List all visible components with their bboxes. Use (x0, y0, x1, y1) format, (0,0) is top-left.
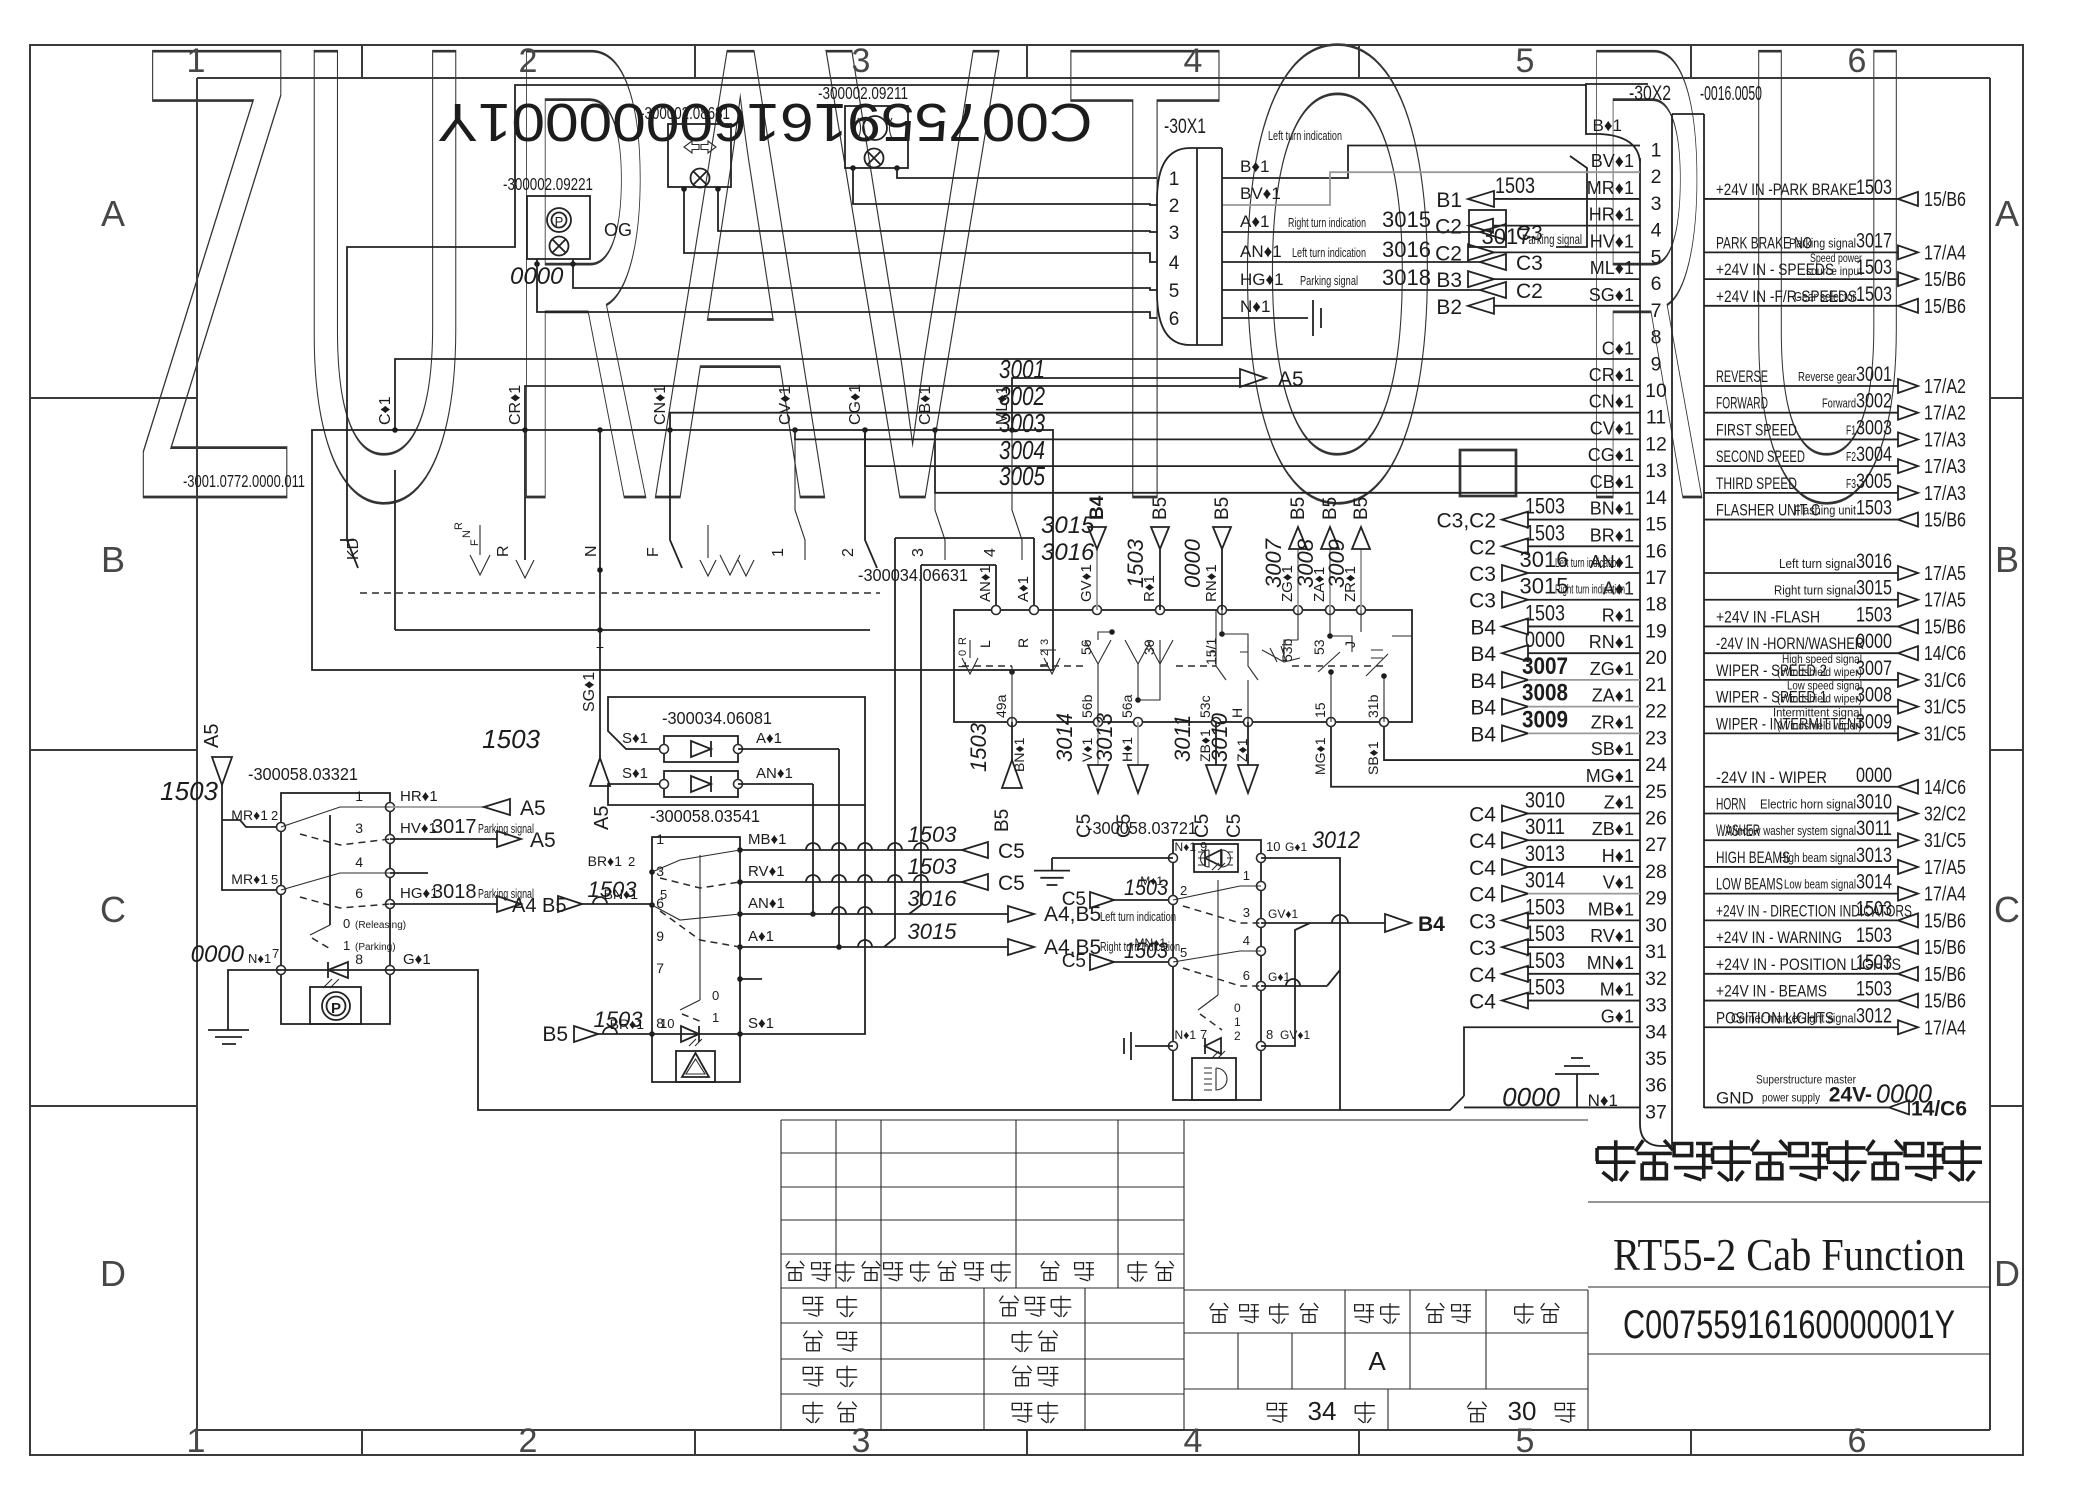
svg-text:0000: 0000 (191, 941, 245, 968)
svg-text:1: 1 (187, 1422, 206, 1460)
svg-text:28: 28 (1645, 861, 1667, 883)
svg-text:G♦1: G♦1 (403, 951, 431, 968)
switch -300058.03721 (light switch) (1087, 818, 1261, 1100)
svg-text:15: 15 (1645, 514, 1667, 536)
svg-text:56a: 56a (1119, 694, 1135, 718)
svg-text:33: 33 (1645, 995, 1667, 1017)
svg-text:27: 27 (1645, 834, 1667, 856)
svg-text:GND: GND (1716, 1088, 1754, 1107)
svg-text:C♦1: C♦1 (377, 396, 394, 425)
svg-text:H♦1: H♦1 (1602, 846, 1634, 866)
svg-text:LOW BEAMS: LOW BEAMS (1716, 875, 1783, 894)
svg-text:4: 4 (982, 548, 999, 557)
switch -300058.03321 (park brake) (248, 764, 390, 1024)
svg-text:34: 34 (1308, 1396, 1337, 1426)
svg-text:3018: 3018 (432, 881, 477, 903)
node C vertical (345, 396, 398, 560)
svg-text:3014: 3014 (1052, 713, 1077, 762)
wire -30X2 pin27 right to 31/C5 (1704, 817, 1966, 852)
wire pin11 CN net 3002 (670, 413, 1640, 430)
svg-text:4: 4 (1169, 253, 1180, 274)
light switch row MN feed (1062, 933, 1266, 972)
svg-text:SB♦1: SB♦1 (1365, 741, 1381, 775)
svg-text:17: 17 (1645, 567, 1667, 589)
svg-text:30: 30 (1508, 1396, 1537, 1426)
svg-text:B: B (1995, 539, 2019, 580)
svg-text:B2: B2 (1436, 296, 1462, 319)
svg-text:F3: F3 (1846, 477, 1856, 491)
hazard feed arrows (558, 877, 652, 912)
svg-text:24: 24 (1645, 754, 1667, 776)
wire -30X2 pin6 left (1436, 269, 1640, 292)
svg-text:1503: 1503 (1856, 603, 1892, 626)
svg-text:CN♦1: CN♦1 (652, 385, 669, 425)
wire B+ supply top run (347, 85, 1586, 430)
svg-text:0: 0 (343, 916, 350, 931)
svg-text:B4: B4 (1470, 723, 1496, 746)
node A5 feed left margin (160, 724, 281, 890)
svg-text:R: R (957, 637, 969, 645)
svg-text:BR♦1: BR♦1 (610, 1016, 645, 1032)
-30X1 pin6 wire N to chassis (1222, 297, 1321, 336)
svg-text:16: 16 (1645, 540, 1667, 562)
svg-text:B3: B3 (1436, 269, 1462, 292)
svg-text:1503: 1503 (1495, 173, 1535, 198)
svg-text:RV♦1: RV♦1 (1590, 926, 1634, 946)
svg-text:F1: F1 (1846, 423, 1856, 437)
svg-text:RV♦1: RV♦1 (748, 863, 785, 880)
svg-text:+24V IN -FLASH: +24V IN -FLASH (1716, 607, 1820, 626)
svg-text:14/C6: 14/C6 (1911, 1097, 1967, 1120)
wire lamp08681 right pin to -30X1 pin3 (718, 189, 1157, 232)
svg-text:13: 13 (1645, 460, 1667, 482)
svg-text:Low speed signal: Low speed signal (1787, 679, 1862, 693)
wire -30X2 pin19 right to 15/B6 (1704, 603, 1966, 638)
svg-text:S♦1: S♦1 (748, 1015, 774, 1032)
svg-text:1: 1 (712, 1010, 719, 1025)
svg-text:30: 30 (1645, 914, 1667, 936)
svg-text:Window washer system signal: Window washer system signal (1726, 824, 1856, 838)
svg-text:1503: 1503 (908, 854, 958, 879)
svg-text:SECOND SPEED: SECOND SPEED (1716, 447, 1805, 466)
wire -30X2 pin19 left (1470, 600, 1640, 639)
svg-text:+24V IN - BEAMS: +24V IN - BEAMS (1716, 982, 1827, 1001)
svg-text:3007: 3007 (1261, 538, 1286, 588)
svg-text:A5: A5 (530, 829, 556, 852)
svg-text:BV♦1: BV♦1 (1240, 184, 1281, 203)
wire G to bottom rail (390, 970, 1464, 1110)
svg-text:C5: C5 (1062, 951, 1086, 972)
svg-text:+24V IN - WARNING: +24V IN - WARNING (1716, 928, 1842, 947)
node SG output with A5 arrow (482, 630, 613, 830)
svg-text:2: 2 (519, 1422, 538, 1460)
svg-text:P: P (555, 214, 564, 229)
svg-text:source input: source input (1806, 264, 1863, 278)
svg-text:1: 1 (656, 831, 664, 847)
title block right: company, title, code (1588, 1140, 1990, 1354)
node CB vertical (910, 386, 938, 557)
svg-text:A5: A5 (201, 724, 223, 748)
-30X1 pin5 wire HG / Parking signal 3018 (1222, 265, 1543, 303)
svg-text:N: N (583, 545, 600, 557)
svg-text:A♦1: A♦1 (748, 928, 774, 945)
switch assembly -300034.06631 (turn/wiper/light lever) (858, 565, 1412, 722)
svg-text:A♦1: A♦1 (756, 730, 782, 747)
wire -30X2 pin23 left (1470, 706, 1640, 746)
svg-text:SB♦1: SB♦1 (1591, 739, 1634, 759)
svg-text:N: N (461, 530, 473, 538)
svg-text:C4: C4 (1469, 830, 1496, 853)
hazard outputs to C5 (740, 822, 1025, 863)
svg-text:3010: 3010 (1525, 788, 1565, 813)
svg-text:3010: 3010 (1856, 791, 1892, 814)
wire -30X2 pin15 right to 15/B6 (1704, 497, 1966, 532)
svg-text:Left turn indication: Left turn indication (1268, 128, 1342, 143)
wire -30X2 pin32 left (1469, 948, 1640, 987)
svg-text:OG: OG (604, 220, 632, 240)
wire -30X2 pin20 left (1470, 627, 1640, 666)
svg-text:A: A (101, 193, 125, 234)
svg-text:C2: C2 (1435, 216, 1462, 239)
svg-text:1: 1 (1651, 140, 1662, 162)
svg-text:3007: 3007 (1856, 657, 1892, 680)
pin1 HR out to A5 (355, 788, 545, 820)
svg-text:D: D (100, 1253, 126, 1294)
svg-text:3011: 3011 (1170, 715, 1195, 762)
svg-text:8: 8 (355, 951, 363, 967)
svg-text:(Windshield wiper): (Windshield wiper) (1777, 665, 1862, 679)
svg-text:A: A (1995, 193, 2019, 234)
wire -30X2 pin5 left (1435, 242, 1640, 265)
svg-text:AN♦1: AN♦1 (1240, 242, 1282, 261)
node N vertical (583, 427, 603, 557)
svg-text:C2: C2 (1516, 280, 1543, 303)
diode unit -300034.06081 (608, 697, 865, 805)
svg-text:3013: 3013 (1525, 841, 1565, 866)
svg-text:C4: C4 (1469, 884, 1496, 907)
svg-text:AN♦1: AN♦1 (756, 765, 793, 782)
svg-text:2: 2 (1180, 883, 1187, 898)
svg-text:Right turn indication: Right turn indication (1288, 215, 1366, 230)
svg-text:Z♦1: Z♦1 (1604, 793, 1634, 813)
wire pin34 G net (1464, 1027, 1640, 1096)
svg-text:0000: 0000 (1856, 764, 1892, 787)
svg-text:Low beam signal: Low beam signal (1784, 878, 1856, 892)
svg-text:C: C (100, 889, 126, 930)
svg-text:5: 5 (1516, 1422, 1535, 1460)
svg-text:MB♦1: MB♦1 (748, 831, 787, 848)
svg-text:3013: 3013 (1092, 712, 1117, 762)
svg-text:(Windshield wiper): (Windshield wiper) (1777, 692, 1862, 706)
wire -30X2 pin31 right to 15/B6 (1704, 924, 1966, 959)
wire -30X2 pin18 right to 17/A5 (1704, 577, 1966, 612)
svg-text:B4: B4 (1470, 643, 1496, 666)
svg-text:31: 31 (1645, 941, 1667, 963)
svg-text:B: B (101, 539, 125, 580)
svg-text:7: 7 (1200, 1027, 1207, 1042)
svg-text:RT55-2 Cab Function: RT55-2 Cab Function (1613, 1229, 1965, 1280)
wire -30X2 pin7 right to 15/B6 (1704, 283, 1966, 318)
svg-text:AN♦1: AN♦1 (977, 565, 994, 602)
diode D2 row S-AN (622, 765, 813, 797)
wire -30X2 pin30 right to 15/B6 (1704, 897, 1966, 932)
svg-text:CR♦1: CR♦1 (1589, 365, 1634, 385)
svg-text:1: 1 (1169, 169, 1180, 190)
svg-text:N♦1: N♦1 (248, 951, 271, 966)
svg-text:7: 7 (272, 946, 279, 961)
svg-text:3: 3 (1651, 193, 1662, 215)
svg-text:C3: C3 (1469, 590, 1496, 613)
hazard internals (652, 850, 740, 1082)
svg-text:C5: C5 (1224, 814, 1245, 838)
pin5 MR (231, 871, 285, 895)
svg-text:Right turn signal: Right turn signal (1774, 584, 1856, 598)
svg-text:25: 25 (1645, 781, 1667, 803)
title block tables (781, 1120, 1184, 1430)
svg-text:B4: B4 (1418, 913, 1445, 936)
svg-text:(Releasing): (Releasing) (355, 920, 406, 931)
wire pin24 SB net (1384, 722, 1640, 760)
wire -30X2 pin37 GND row (1704, 1072, 1967, 1120)
svg-text:17/A3: 17/A3 (1924, 483, 1966, 505)
svg-text:9: 9 (1200, 839, 1207, 854)
svg-text:N♦1: N♦1 (1240, 297, 1270, 316)
svg-text:Electric horn signal: Electric horn signal (1760, 798, 1856, 812)
svg-text:2: 2 (840, 548, 857, 557)
svg-text:C3: C3 (1469, 937, 1496, 960)
svg-text:0000: 0000 (1180, 538, 1205, 588)
node CN vertical (645, 385, 673, 557)
svg-text:3015: 3015 (1856, 577, 1892, 600)
svg-text:High speed signal: High speed signal (1782, 652, 1862, 666)
svg-text:17/A5: 17/A5 (1924, 857, 1966, 879)
svg-text:53b: 53b (1279, 638, 1295, 662)
svg-text:Z: Z (135, 0, 295, 635)
svg-text:14/C6: 14/C6 (1924, 777, 1966, 799)
svg-text:A: A (1368, 1346, 1386, 1376)
wire lamp09211 left pin to -30X1 pin2 (853, 168, 1157, 205)
pin3 HV out 3017 (355, 816, 555, 852)
wire -30X2 pin21 right to 31/C6 (1704, 652, 1966, 692)
svg-text:N♦1: N♦1 (1175, 1028, 1197, 1042)
svg-text:3016: 3016 (1041, 539, 1095, 566)
svg-text:ML♦1: ML♦1 (994, 386, 1011, 425)
svg-text:G♦1: G♦1 (1285, 840, 1307, 854)
svg-text:1503: 1503 (1525, 975, 1565, 1000)
svg-text:2: 2 (271, 808, 278, 823)
svg-text:15/B6: 15/B6 (1924, 991, 1966, 1013)
wire -30X2 pin21 left (1470, 653, 1640, 693)
svg-text:Reverse gear: Reverse gear (1798, 370, 1856, 384)
svg-text:1: 1 (770, 548, 787, 557)
svg-text:53: 53 (1311, 639, 1327, 655)
lamp unit -300002.09211 (high beam indicator) (818, 83, 908, 171)
wire -30X2 pin34 right to 17/A4 (1704, 1004, 1966, 1039)
wire -30X2 pin26 left (1469, 788, 1640, 827)
svg-text:High beam signal: High beam signal (1779, 851, 1856, 865)
svg-text:BN♦1: BN♦1 (604, 886, 639, 902)
park brake internals (281, 807, 406, 1024)
svg-text:R♦1: R♦1 (1602, 605, 1634, 625)
svg-text:C3,C2: C3,C2 (1436, 510, 1496, 533)
svg-text:17/A5: 17/A5 (1924, 590, 1966, 612)
svg-text:C3: C3 (1469, 910, 1496, 933)
wire N to ground (191, 941, 281, 1044)
svg-text:C: C (1994, 889, 2020, 930)
svg-text:22: 22 (1645, 701, 1667, 723)
svg-text:3001: 3001 (1856, 363, 1892, 386)
svg-text:31/C5: 31/C5 (1924, 697, 1966, 719)
svg-text:3009: 3009 (1856, 710, 1892, 733)
connector -30X2 -0016.0050 (1586, 82, 1762, 1146)
svg-text:3011: 3011 (1525, 814, 1565, 839)
svg-text:17/A2: 17/A2 (1924, 403, 1966, 425)
svg-text:B♦1: B♦1 (1593, 116, 1622, 135)
wire -30X2 pin27 left (1469, 814, 1640, 853)
svg-text:11: 11 (1646, 407, 1666, 429)
svg-text:MN♦1: MN♦1 (1135, 936, 1167, 950)
svg-text:4: 4 (1184, 1422, 1203, 1460)
svg-text:3014: 3014 (1856, 871, 1892, 894)
svg-text:C4: C4 (1469, 991, 1496, 1014)
svg-text:3016: 3016 (1856, 550, 1892, 573)
svg-text:U: U (1740, 0, 1915, 635)
svg-text:F2: F2 (1846, 450, 1856, 464)
svg-text:2: 2 (519, 42, 538, 80)
svg-text:C3: C3 (1516, 222, 1543, 245)
assembly bottom outputs (966, 722, 1027, 832)
svg-text:C2: C2 (1469, 536, 1496, 559)
svg-text:CV♦1: CV♦1 (777, 386, 794, 425)
wire pin1 B net from -30X1 (1222, 146, 1640, 179)
title block middle table (1184, 1120, 1588, 1430)
wire -30X2 pin29 left (1469, 868, 1640, 907)
svg-text:1: 1 (187, 42, 206, 80)
svg-text:Forward: Forward (1822, 397, 1856, 411)
svg-text:0000: 0000 (1525, 627, 1565, 652)
svg-text:(Windshield wiper): (Windshield wiper) (1777, 718, 1862, 732)
svg-text:1503: 1503 (1525, 948, 1565, 973)
svg-text:B5: B5 (1212, 497, 1233, 520)
svg-text:17/A5: 17/A5 (1924, 563, 1966, 585)
svg-text:15/B6: 15/B6 (1924, 269, 1966, 291)
svg-text:Z♦1: Z♦1 (1234, 738, 1250, 762)
svg-text:-300058.03541: -300058.03541 (650, 806, 760, 826)
svg-text:-30X1: -30X1 (1164, 115, 1206, 138)
svg-text:3015: 3015 (908, 919, 958, 944)
svg-text:15/1: 15/1 (1203, 638, 1219, 665)
svg-text:3008: 3008 (1522, 680, 1568, 707)
svg-text:3: 3 (910, 548, 927, 557)
svg-text:A5: A5 (520, 797, 546, 820)
svg-text:9: 9 (1651, 353, 1662, 375)
hazard 3015 output (740, 919, 1180, 959)
svg-text:Left turn signal: Left turn signal (1779, 557, 1856, 571)
wire -30X2 pin5 right to 17/A4 (1704, 229, 1966, 264)
svg-text:Left turn indication: Left turn indication (1100, 909, 1176, 924)
svg-text:A5: A5 (1278, 368, 1304, 391)
wire lamp09221 right pin to -30X1 pin5 (573, 259, 1157, 290)
svg-text:CN♦1: CN♦1 (1589, 392, 1634, 412)
light switch row M feed (1062, 868, 1266, 910)
svg-text:3004: 3004 (1856, 443, 1892, 466)
svg-text:3: 3 (852, 1422, 871, 1460)
svg-text:3: 3 (1169, 223, 1180, 244)
lamp unit -300002.08681 (turn indicators) (640, 103, 731, 192)
svg-text:CG♦1: CG♦1 (847, 384, 864, 425)
svg-text:1503: 1503 (908, 822, 958, 847)
svg-text:(Parking): (Parking) (355, 942, 396, 953)
svg-text:10: 10 (1645, 380, 1667, 402)
svg-text:-300034.06631: -300034.06631 (858, 565, 968, 585)
svg-text:B4: B4 (1087, 495, 1108, 520)
svg-text:HR♦1: HR♦1 (400, 788, 438, 805)
svg-text:17/A3: 17/A3 (1924, 456, 1966, 478)
svg-text:3016: 3016 (908, 886, 958, 911)
light switch row G join (1243, 968, 1340, 991)
svg-text:32: 32 (1645, 968, 1667, 990)
svg-text:3: 3 (355, 820, 363, 836)
svg-text:2: 2 (1039, 650, 1051, 656)
-30X1 pin3 wire A / Right turn indication 3015 (1222, 207, 1543, 245)
assembly internals (957, 610, 1412, 722)
svg-text:B5: B5 (1351, 497, 1372, 520)
svg-text:34: 34 (1645, 1021, 1667, 1043)
svg-text:-30X2: -30X2 (1629, 82, 1671, 105)
svg-text:1503: 1503 (1856, 497, 1892, 520)
wire -30X2 pin26 right to 32/C2 (1704, 791, 1966, 826)
svg-text:-24V IN -HORN/WASHER: -24V IN -HORN/WASHER (1716, 634, 1864, 653)
svg-text:G♦1: G♦1 (1601, 1006, 1634, 1026)
svg-text:R: R (495, 545, 512, 557)
svg-text:BR♦1: BR♦1 (1590, 525, 1634, 545)
svg-text:17/A4: 17/A4 (1924, 884, 1966, 906)
svg-text:3002: 3002 (1856, 390, 1892, 413)
wire -30X2 pin28 right to 17/A5 (1704, 844, 1966, 879)
wire pin14 CB net 3005 (935, 430, 1640, 493)
svg-text:5: 5 (660, 887, 667, 902)
svg-text:1503: 1503 (1123, 538, 1148, 588)
svg-text:5: 5 (1169, 281, 1180, 302)
svg-text:1503: 1503 (482, 724, 540, 754)
svg-text:15/B6: 15/B6 (1924, 964, 1966, 986)
svg-text:A♦1: A♦1 (1015, 576, 1032, 602)
svg-text:R: R (1015, 638, 1031, 648)
svg-text:C3: C3 (1469, 563, 1496, 586)
switch internals (340, 430, 1022, 633)
svg-text:S♦1: S♦1 (622, 730, 648, 747)
svg-text:1503: 1503 (1856, 897, 1892, 920)
wire -30X2 pin3 left (1436, 173, 1640, 212)
svg-text:8: 8 (1266, 1027, 1273, 1042)
pin2 MR (231, 807, 285, 832)
svg-text:7: 7 (1651, 300, 1662, 322)
svg-text:15/B6: 15/B6 (1924, 616, 1966, 638)
svg-text:6: 6 (1169, 309, 1180, 330)
svg-text:20: 20 (1645, 647, 1667, 669)
svg-text:1503: 1503 (1856, 978, 1892, 1001)
svg-text:1503: 1503 (1525, 894, 1565, 919)
svg-text:15/B6: 15/B6 (1924, 296, 1966, 318)
svg-text:15/B6: 15/B6 (1924, 910, 1966, 932)
svg-text:BV♦1: BV♦1 (1591, 151, 1634, 171)
hazard pins right (656, 831, 786, 1037)
wire lamp09211 right pin to -30X1 pin1 (897, 168, 1157, 178)
wire pin2 BV net from -30X1 (1222, 172, 1640, 205)
svg-text:A♦1: A♦1 (1240, 212, 1269, 231)
svg-text:BR♦1: BR♦1 (588, 853, 623, 869)
svg-text:15/B6: 15/B6 (1924, 189, 1966, 211)
